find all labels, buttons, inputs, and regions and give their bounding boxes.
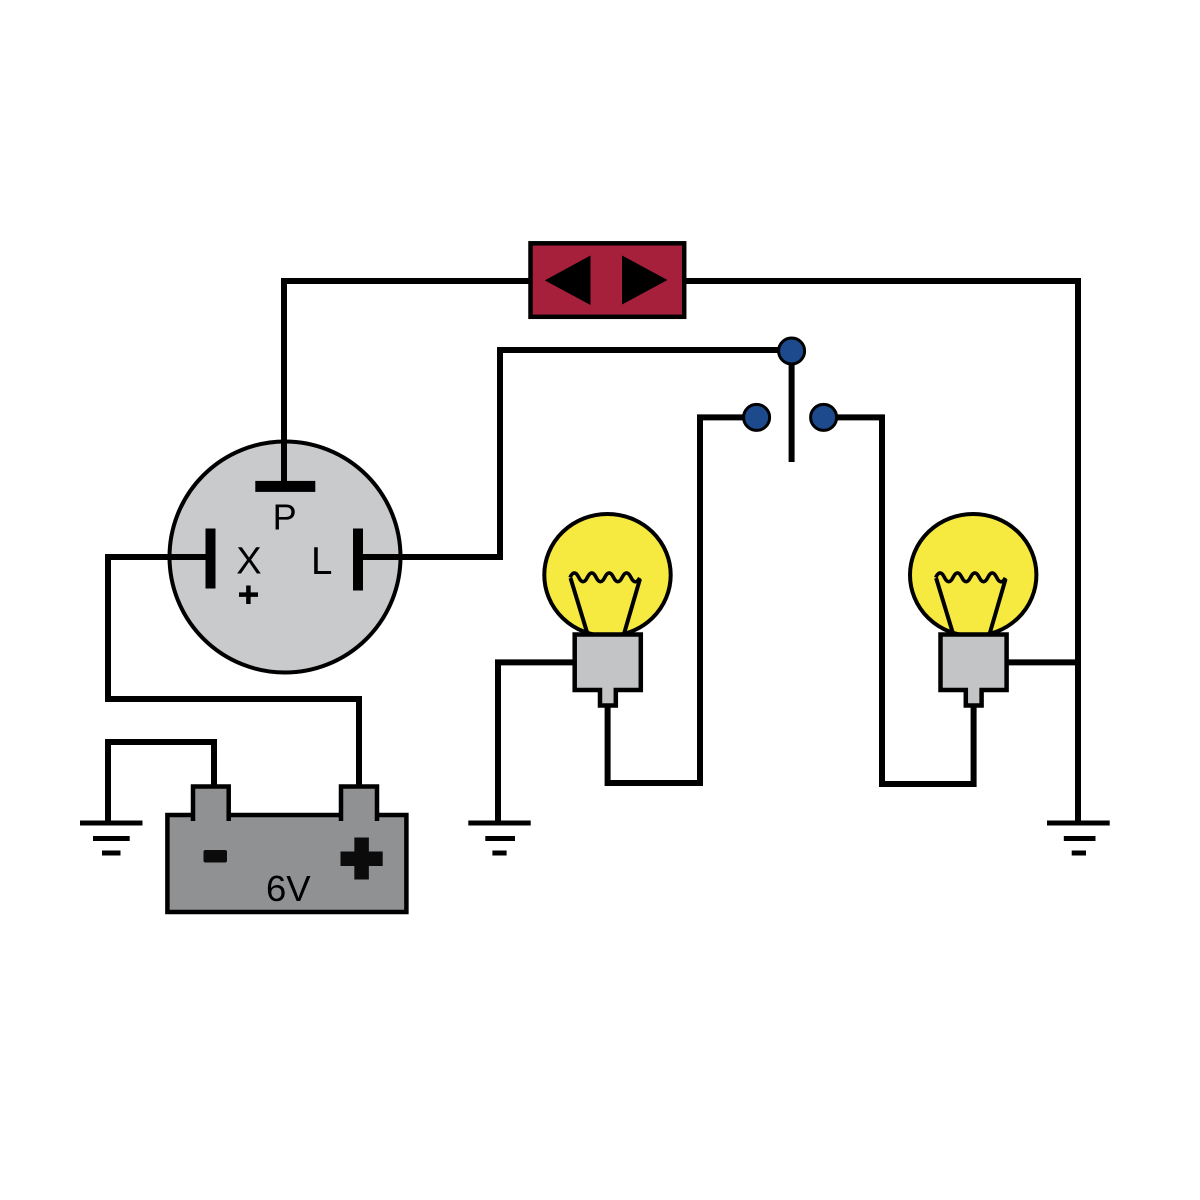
- wire: relay P up and right to indicator: [284, 281, 530, 488]
- ground (left, battery negative): [80, 823, 143, 853]
- battery body: [167, 815, 406, 912]
- flasher relay body: [170, 442, 401, 673]
- wire: indicator right side to right rail: [684, 278, 1078, 284]
- right bulb filament right leg: [989, 579, 1006, 636]
- indicator left triangle: [545, 256, 591, 306]
- indicator lamp (red box): [531, 243, 685, 316]
- left bulb base: [575, 635, 641, 706]
- wire: left bulb base to middle ground: [498, 662, 580, 823]
- right bulb filament left leg: [936, 578, 954, 636]
- wire: right rail vertical down to right ground: [1075, 278, 1081, 823]
- switch left contact (blue): [744, 404, 770, 430]
- left bulb filament left leg: [571, 578, 589, 636]
- right bulb base: [941, 635, 1007, 706]
- svg-text:L: L: [311, 540, 332, 583]
- relay terminal L bar: [353, 529, 363, 591]
- left bulb filament wavy top: [570, 573, 640, 582]
- wire: battery - terminal to left ground: [108, 742, 214, 823]
- relay terminal P bar: [255, 481, 315, 492]
- indicator right triangle: [622, 256, 668, 305]
- svg-text:6V: 6V: [266, 868, 311, 909]
- battery + symbol: [341, 838, 383, 880]
- relay terminal X bar: [206, 529, 216, 589]
- right bulb filament wavy top: [936, 573, 1006, 582]
- ground (middle, left bulb): [468, 823, 530, 853]
- svg-text:P: P: [273, 497, 297, 538]
- wire: switch arm (movable contact): [789, 351, 795, 462]
- battery - terminal post: [193, 787, 229, 822]
- wire: switch left contact down to left bulb tip: [608, 417, 757, 783]
- svg-text:X: X: [236, 541, 261, 583]
- left bulb glass: [544, 514, 670, 636]
- wire: switch right contact down to right bulb tip: [823, 417, 974, 784]
- left bulb filament right leg: [624, 579, 641, 636]
- label + (relay polarity): [239, 586, 258, 605]
- battery - symbol: [204, 850, 228, 863]
- wire: relay X left, down, right to battery + terminal: [108, 557, 359, 790]
- battery + terminal post: [341, 787, 377, 822]
- wire: relay L right then up then right to switch common: [358, 350, 792, 557]
- switch common contact (blue): [779, 338, 805, 364]
- switch right contact (blue): [811, 404, 837, 430]
- wire: right bulb base right to right rail: [1002, 659, 1078, 665]
- ground (right, right rail): [1047, 823, 1110, 853]
- right bulb glass: [910, 514, 1036, 636]
